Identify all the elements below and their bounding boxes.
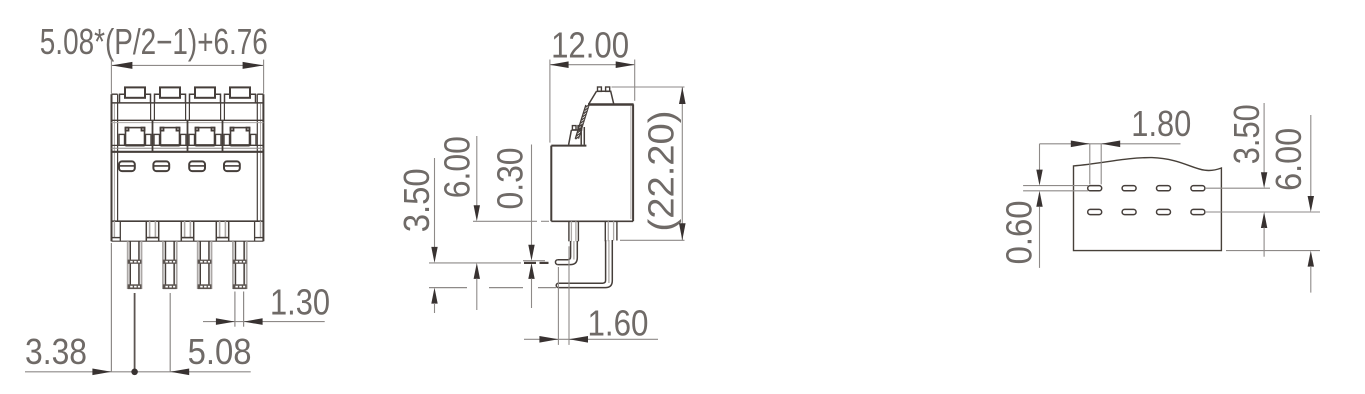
- right pin stub: [605, 221, 617, 241]
- svg-text:0.30: 0.30: [490, 148, 531, 210]
- svg-text:1.80: 1.80: [1131, 103, 1191, 144]
- overall width dimension line with arrows: [111, 60, 263, 94]
- pad slot row2 #3: [1157, 209, 1171, 214]
- PCB reference line solid: [429, 262, 549, 264]
- pad slot row1 #1: [1088, 186, 1102, 191]
- left edge foot cluster: [112, 221, 121, 241]
- push button 3 (cap and shoulders): [190, 87, 221, 103]
- lower push button side profile: [569, 126, 585, 145]
- left bent pin (gull wing): [555, 241, 577, 265]
- top width dimension line 12.00: [550, 60, 635, 143]
- row to edge dimension 6.00 (rotated text): [1226, 115, 1320, 293]
- bottom dimension line with arrows and junction dot: [25, 369, 251, 376]
- center line pin 1: [134, 293, 136, 372]
- side body outline: [551, 104, 633, 221]
- svg-text:3.38: 3.38: [25, 331, 87, 372]
- height dimension line 22.20: [612, 87, 686, 240]
- push button 1 (cap and shoulders): [120, 87, 151, 103]
- extension lines pin 4 width: [235, 292, 244, 327]
- svg-text:1.60: 1.60: [588, 302, 649, 343]
- terminal block housing body: [112, 94, 264, 241]
- pad slot row2 #2: [1122, 209, 1136, 214]
- wire entry cavity 4: [224, 128, 256, 146]
- wire entry cavity 1: [119, 128, 151, 146]
- slot width dimension 1.80: [1040, 141, 1181, 185]
- release slot 2: [153, 161, 169, 171]
- pin foot dimension line 1.60: [524, 246, 658, 345]
- wire entry cavity 3: [189, 128, 221, 146]
- svg-text:6.00: 6.00: [437, 136, 478, 198]
- pad slot row2 #1: [1088, 209, 1102, 214]
- dimension line 6.00 vertical: [474, 136, 480, 310]
- center line pin 2: [169, 293, 171, 372]
- right bent pin (gull wing): [556, 240, 612, 288]
- body bottom extension line: [473, 220, 549, 222]
- release slot 3: [189, 161, 205, 171]
- foot divider cluster 2: [181, 221, 193, 241]
- top push button side profile: [589, 87, 614, 104]
- wire entry cavity 2: [154, 128, 186, 146]
- solder pin 1: [128, 241, 142, 289]
- row pitch dimension 3.50 (rotated text): [1206, 103, 1320, 257]
- svg-text:3.50: 3.50: [1226, 104, 1267, 164]
- svg-text:0.60: 0.60: [998, 200, 1039, 264]
- solder pin 4: [233, 241, 247, 289]
- PCB reference line upper: [523, 260, 545, 262]
- svg-text:3.50: 3.50: [396, 168, 437, 232]
- left pin stub: [569, 221, 579, 241]
- foot divider cluster 1: [146, 221, 158, 241]
- push button 2 (cap and shoulders): [155, 87, 186, 103]
- right view: PCB drilling pattern: [998, 103, 1320, 293]
- extension line from left body edge: [110, 243, 112, 372]
- pad slot row2 #4: [1191, 209, 1205, 214]
- dimension line 3.50 vertical: [431, 158, 437, 313]
- PCB board outline with wavy break line: [1074, 158, 1222, 251]
- pad slot row1 #2: [1122, 186, 1136, 191]
- svg-text:5.08: 5.08: [188, 331, 252, 372]
- position divider 1: [151, 103, 155, 152]
- slot height dimension 0.60: [1023, 144, 1088, 268]
- pad slot row1 #3: [1157, 186, 1171, 191]
- dimension line 0.30 vertical: [528, 145, 534, 309]
- svg-text:6.00: 6.00: [1268, 128, 1309, 191]
- middle view: side profile of terminal block: [396, 25, 686, 345]
- release slot 1: [119, 161, 135, 171]
- solder pin 2: [163, 241, 177, 289]
- solder pin 3: [198, 241, 212, 289]
- position divider 2: [186, 103, 190, 152]
- left view: front view of 4-position terminal block: [25, 21, 330, 375]
- svg-text:1.30: 1.30: [270, 281, 330, 322]
- pin width dimension line 1.30: [203, 318, 325, 325]
- right edge foot cluster: [255, 221, 264, 241]
- release slot 4: [224, 161, 240, 171]
- svg-text:5.08*(P/2−1)+6.76: 5.08*(P/2−1)+6.76: [40, 21, 268, 62]
- position divider 3: [221, 103, 225, 152]
- PCB reference line lower dashed: [429, 287, 556, 289]
- svg-text:(22.20): (22.20): [641, 111, 682, 232]
- pad slot row1 #4: [1191, 186, 1205, 191]
- svg-text:12.00: 12.00: [551, 25, 629, 66]
- foot divider cluster 3: [216, 221, 228, 241]
- hatched ramp between steps: [575, 105, 589, 140]
- push button 4 (cap and shoulders): [225, 87, 256, 103]
